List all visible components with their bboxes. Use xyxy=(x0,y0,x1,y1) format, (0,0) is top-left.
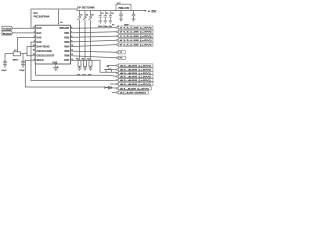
ground VSS xyxy=(53,68,59,71)
diode D1 on bus3 xyxy=(105,86,112,89)
svg-text:C3: C3 xyxy=(106,13,108,15)
op-amp U1 chip body xyxy=(35,25,70,64)
node +5V terminal arrow xyxy=(145,10,147,12)
svg-text:C4: C4 xyxy=(111,12,114,15)
regulator IC2 body xyxy=(116,4,131,10)
node arrow row2 xyxy=(116,31,118,33)
svg-text:RA4-T0CKI: RA4-T0CKI xyxy=(36,46,49,49)
ground R1 xyxy=(78,68,82,70)
connector label box b1 xyxy=(118,64,153,67)
svg-text:OSC1/CLKIN: OSC1/CLKIN xyxy=(36,50,51,53)
wire VSS stub xyxy=(55,64,57,68)
bottom feed row b8 xyxy=(112,92,116,94)
wire left row3 to crystal xyxy=(18,37,36,53)
ground below C5 xyxy=(3,65,7,67)
bottom feed row b6 xyxy=(110,83,116,85)
ground below C6 xyxy=(21,65,25,67)
ground C3 xyxy=(104,21,107,23)
node arrow row7 xyxy=(116,57,118,59)
node arrow row b8 xyxy=(116,92,118,94)
svg-text:RB0-INT: RB0-INT xyxy=(60,27,70,30)
connector label box row2 xyxy=(118,30,153,33)
svg-text:4 L1-L28 (+5V): 4 L1-L28 (+5V) xyxy=(120,39,153,42)
wire rail left drop to pin row1 xyxy=(30,9,32,28)
wire VDD drop pin 14 xyxy=(58,9,60,23)
connector label box row5 xyxy=(118,43,153,46)
capacitor C5 xyxy=(3,54,7,65)
svg-text:A1-A28 (+5V): A1-A28 (+5V) xyxy=(120,68,152,71)
svg-text:OSC2/CLKOUT: OSC2/CLKOUT xyxy=(36,55,54,58)
connector label box row4 xyxy=(118,39,153,42)
wire left row8 to bottom bus3 xyxy=(25,60,116,88)
svg-text:+ 5V: + 5V xyxy=(148,9,158,13)
ground C4 xyxy=(109,21,112,23)
svg-text:A1-A28 (+5V): A1-A28 (+5V) xyxy=(120,75,152,78)
crystal X1 body xyxy=(5,52,35,56)
resistor R3 xyxy=(89,60,92,68)
wire crystal right lead xyxy=(20,54,35,56)
node arrow row3 xyxy=(116,35,118,37)
svg-text:RB1: RB1 xyxy=(64,32,70,35)
connector label box row1 xyxy=(118,26,153,29)
ground C2 xyxy=(99,21,102,23)
ground C8 xyxy=(132,19,136,21)
svg-text:S2: S2 xyxy=(86,15,88,17)
svg-text:5 L1-L28 (+5V): 5 L1-L28 (+5V) xyxy=(120,44,153,46)
svg-text:TXD: TXD xyxy=(3,29,12,31)
svg-text:MCLR: MCLR xyxy=(36,59,43,62)
svg-text:RA0: RA0 xyxy=(36,27,42,30)
node arrow row6 xyxy=(116,51,118,53)
svg-text:A1-A28 (+5V): A1-A28 (+5V) xyxy=(120,83,152,86)
buzzer X2 xyxy=(106,68,112,73)
ground C7 xyxy=(119,19,123,21)
node junction S2-RB1 xyxy=(84,32,85,33)
wire right row6 xyxy=(71,51,117,52)
svg-text:78L05: 78L05 xyxy=(118,7,130,10)
node arrow row b1 xyxy=(116,65,118,67)
resistor R2 xyxy=(84,60,87,68)
wire bottom bus1 from chip xyxy=(36,64,117,76)
wire right row3 xyxy=(71,36,117,37)
node junction S1-RB0 xyxy=(79,28,80,29)
capacitor C8 xyxy=(132,11,136,20)
svg-text:A1-A28 (+5V): A1-A28 (+5V) xyxy=(120,64,152,67)
svg-text:22pF: 22pF xyxy=(19,70,25,72)
switch S1 xyxy=(78,11,81,61)
svg-text:X2: X2 xyxy=(107,66,110,68)
svg-text:1 L1-L28 (+5V): 1 L1-L28 (+5V) xyxy=(120,36,153,38)
node arrow row b2 xyxy=(116,69,118,71)
connector label box b2 xyxy=(118,68,153,71)
svg-text:S3: S3 xyxy=(91,15,93,17)
bottom feed row b1 xyxy=(104,66,116,93)
node arrow row b5 xyxy=(116,79,118,81)
svg-text:A1-A28 (+5V): A1-A28 (+5V) xyxy=(120,79,152,82)
connector K2 xyxy=(2,31,13,35)
svg-text:UP: UP xyxy=(77,5,81,9)
svg-text:22pF: 22pF xyxy=(1,70,7,72)
svg-text:RB6: RB6 xyxy=(64,55,70,58)
node arrow row b4 xyxy=(116,76,118,78)
node arrow row b6 xyxy=(116,83,118,85)
wire right row8 xyxy=(71,60,117,73)
wire left row4 to bottom bus1 xyxy=(31,42,116,81)
switch S3 xyxy=(89,11,92,61)
connector label box row3 xyxy=(118,35,153,38)
svg-text:14: 14 xyxy=(60,21,63,24)
node junction S3-RB2 xyxy=(90,36,91,37)
connector label box b5 xyxy=(118,79,153,82)
capacitor C7 xyxy=(119,11,123,20)
connector label box b8 xyxy=(118,91,148,94)
node arrow row1 xyxy=(116,27,118,29)
connector label box RX xyxy=(118,56,125,59)
svg-text:A1-A28 (+5V): A1-A28 (+5V) xyxy=(120,87,150,90)
wire right row5 xyxy=(71,45,117,47)
ground R2 xyxy=(83,68,87,70)
svg-text:RXD: RXD xyxy=(3,33,12,35)
node arrow row b7 xyxy=(116,88,118,90)
svg-text:RB4: RB4 xyxy=(64,46,70,49)
svg-text:PIC16F84A: PIC16F84A xyxy=(34,15,51,19)
wire crystal left lead xyxy=(5,53,13,55)
node VDD pin arrow xyxy=(58,23,60,25)
switch S2 xyxy=(83,11,86,61)
svg-text:P1: P1 xyxy=(112,24,115,26)
wire left row5 to bottom bus2 xyxy=(27,47,35,54)
svg-text:VSS: VSS xyxy=(52,61,57,64)
capacitor C3 xyxy=(104,11,107,22)
connector label box TX xyxy=(118,51,125,54)
connector label box b4 xyxy=(118,75,153,78)
connector K1 xyxy=(2,26,13,30)
capacitor C2 xyxy=(99,11,102,22)
wire left row1 xyxy=(13,27,35,29)
svg-text:A1-A28 (GND): A1-A28 (GND) xyxy=(120,91,147,94)
svg-text:3 L1-L28 (+5V): 3 L1-L28 (+5V) xyxy=(120,27,153,29)
svg-text:S1: S1 xyxy=(80,15,82,17)
wire right row7 xyxy=(71,56,117,58)
node arrow row b3 xyxy=(116,72,118,74)
capacitor C4 xyxy=(109,11,112,22)
svg-text:RA1: RA1 xyxy=(36,32,42,35)
svg-text:RB7: RB7 xyxy=(64,59,70,62)
svg-text:C2: C2 xyxy=(101,13,103,15)
svg-text:16: 16 xyxy=(33,50,35,52)
node arrow row4 xyxy=(116,39,118,41)
wire left row2 xyxy=(13,32,35,34)
resistor R1 xyxy=(78,60,81,68)
svg-text:RB2: RB2 xyxy=(64,36,70,39)
node arrow row5 xyxy=(116,44,118,46)
ground R3 xyxy=(89,68,93,70)
wire right row1 xyxy=(71,28,117,73)
connector label box b3 xyxy=(118,71,153,74)
connector label box b6 xyxy=(118,82,153,85)
svg-text:RB5: RB5 xyxy=(64,50,70,53)
svg-text:RB3: RB3 xyxy=(64,41,70,44)
capacitor C6 xyxy=(21,54,25,65)
wire right row4 xyxy=(71,40,117,42)
svg-text:2 L1-L28 (+5V): 2 L1-L28 (+5V) xyxy=(120,32,153,34)
svg-text:RA2: RA2 xyxy=(36,36,42,39)
svg-text:4MHz: 4MHz xyxy=(13,58,20,61)
svg-text:DOWN: DOWN xyxy=(87,5,94,9)
svg-text:RA3: RA3 xyxy=(36,41,42,44)
connector label box b7 xyxy=(118,87,151,90)
wire +5V rail xyxy=(31,9,145,11)
svg-text:A1-A28 (+5V): A1-A28 (+5V) xyxy=(120,72,152,75)
bottom feed row b2 xyxy=(104,69,116,71)
wire right row2 xyxy=(71,32,117,33)
